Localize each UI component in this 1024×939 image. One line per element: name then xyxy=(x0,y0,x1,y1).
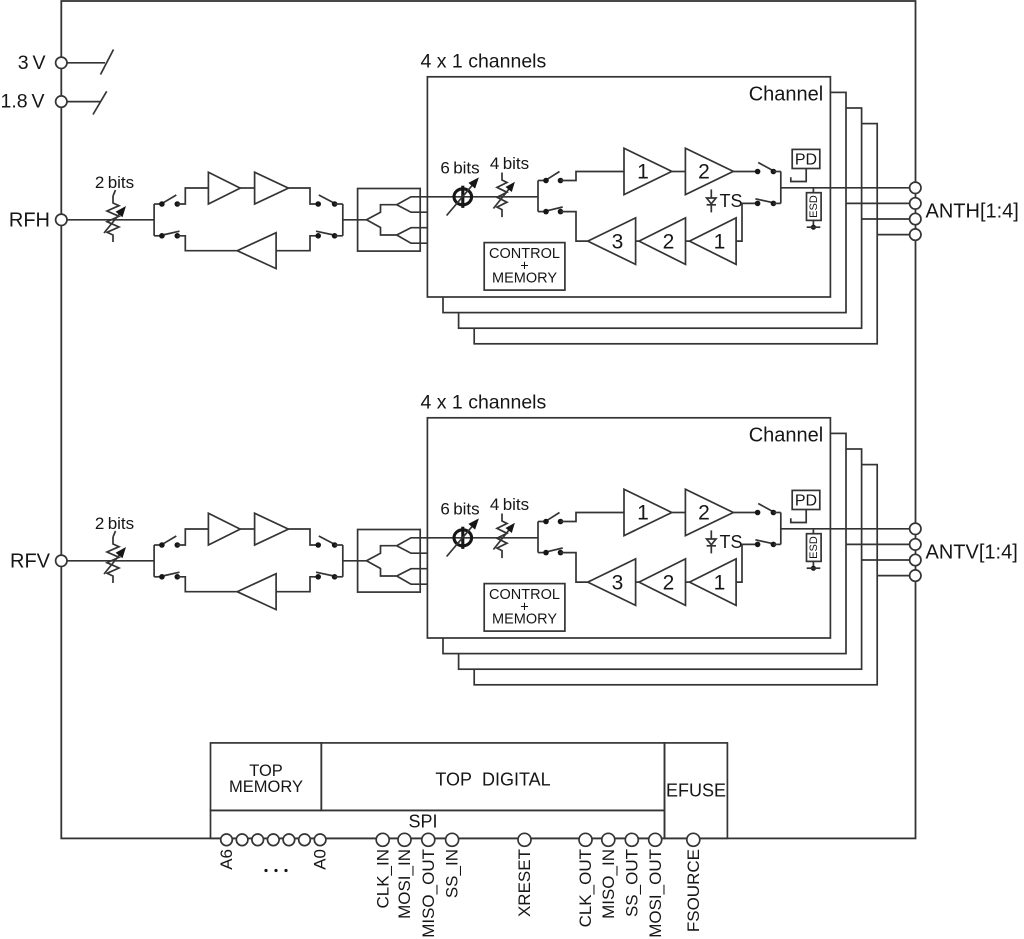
label CONTROL H xyxy=(489,246,560,262)
wire node to RX-out switch V xyxy=(154,576,162,578)
svg-text:PD: PD xyxy=(795,493,817,510)
svg-text:2: 2 xyxy=(698,161,710,184)
svg-text:2: 2 xyxy=(698,502,710,525)
switch RX-out V xyxy=(543,548,563,555)
label Channel (V) xyxy=(749,425,824,447)
wire LNA2-LNA1 H xyxy=(686,240,690,242)
label LNA3 '3' V xyxy=(612,572,624,595)
wire RX chain out V xyxy=(561,553,588,583)
label MEMORY xyxy=(229,778,303,796)
leader 2 bits (V) xyxy=(113,531,116,537)
node TR-in H xyxy=(537,181,539,212)
svg-text:1: 1 xyxy=(637,161,649,184)
pin terminal FSOURCE xyxy=(687,833,700,846)
pin terminal A0 xyxy=(314,834,326,846)
wire LNA in H xyxy=(736,203,758,241)
wire to driver amps V xyxy=(177,529,208,545)
switch bypass RX-in H xyxy=(315,231,337,238)
pin terminal CLK_IN xyxy=(376,833,389,846)
svg-text:Channel: Channel xyxy=(749,425,824,447)
svg-text:6 bits: 6 bits xyxy=(440,500,479,519)
label 4 x 1 channels (H) xyxy=(421,51,547,73)
label SPI xyxy=(408,812,437,832)
wire TX-out to node V xyxy=(335,544,343,546)
svg-text:2 bits: 2 bits xyxy=(95,514,134,533)
label TOP DIGITAL xyxy=(435,770,550,790)
label 6 bits (V) xyxy=(440,500,479,519)
wire RX in V xyxy=(276,577,318,592)
pin terminal MISO_IN xyxy=(602,833,615,846)
pin terminal A-bus xyxy=(268,834,280,846)
channel box 3 (H) xyxy=(459,108,862,328)
wire channel output V xyxy=(781,528,910,530)
svg-text:MEMORY: MEMORY xyxy=(492,271,557,287)
ESD box V xyxy=(807,534,822,562)
label TS H xyxy=(720,191,743,211)
label + V xyxy=(520,600,528,616)
svg-text:MEMORY: MEMORY xyxy=(229,778,303,796)
wire ant3 H xyxy=(862,218,910,220)
pin label A0 xyxy=(311,849,330,870)
channel box 2 (V) xyxy=(443,433,846,653)
wire to PA V xyxy=(561,513,625,522)
node antenna H xyxy=(780,172,782,204)
switch bypass TX-out H xyxy=(315,195,337,207)
terminal ANTH1 H xyxy=(910,182,921,193)
channel box 1 (H) xyxy=(427,77,830,297)
svg-text:ESD: ESD xyxy=(808,536,820,559)
svg-text:CLK_IN: CLK_IN xyxy=(373,849,392,909)
switch TX-out H xyxy=(755,163,776,175)
bus slash 3V xyxy=(101,50,114,75)
switch bypass TX-in V xyxy=(159,536,180,548)
attenuator 4-bit V xyxy=(497,514,507,559)
splitter box V xyxy=(358,530,421,593)
wire TX to antenna node H xyxy=(773,171,780,173)
pin label A6 xyxy=(217,849,236,870)
wire PA1-PA2 H xyxy=(672,171,686,173)
amplifier driver A V xyxy=(208,513,240,545)
label ESD H xyxy=(808,195,820,218)
pin label MISO_IN xyxy=(599,849,618,919)
wire ant2 H xyxy=(846,202,910,204)
svg-text:4 x 1 channels: 4 x 1 channels xyxy=(421,392,547,414)
ESD ground H xyxy=(807,220,821,229)
switch RX-in H xyxy=(755,199,776,206)
wire ant3 V xyxy=(862,559,910,561)
pin terminal MISO_OUT xyxy=(422,833,435,846)
label CONTROL V xyxy=(489,587,560,603)
svg-text:MISO_IN: MISO_IN xyxy=(599,849,618,919)
wire RX-in to node H bypass xyxy=(335,235,343,237)
svg-text:2 bits: 2 bits xyxy=(95,173,134,192)
label LNA1 '1' V xyxy=(714,572,726,595)
label MEMORY V xyxy=(492,612,557,628)
attenuator 2-bit V xyxy=(107,537,119,583)
wire to PA H xyxy=(561,172,625,181)
amplifier RX bypass H xyxy=(237,233,276,269)
wire node to TX switch H xyxy=(538,180,546,182)
label PA2 '2' H xyxy=(698,161,710,184)
wire to driver amps H xyxy=(177,188,208,204)
label 4 bits (H) xyxy=(490,154,529,173)
wire node to TX-in switch V xyxy=(154,544,162,546)
svg-text:4 x 1 channels: 4 x 1 channels xyxy=(421,51,547,73)
pin label FSOURCE xyxy=(684,849,703,932)
terminal ANTH3 H xyxy=(910,213,921,224)
svg-text:ESD: ESD xyxy=(808,195,820,218)
wire node to RX switch V xyxy=(538,552,546,554)
wire 3V xyxy=(67,62,105,64)
wire PA2 out V xyxy=(733,512,757,514)
wire driver A-B V xyxy=(240,528,254,530)
label LNA2 '2' V xyxy=(663,572,675,595)
wire RX return H xyxy=(177,236,237,251)
control memory box H xyxy=(484,243,565,291)
wire ant2 V xyxy=(846,543,910,545)
pin terminal SS_IN xyxy=(446,833,459,846)
attenuator arrow 2-bit V xyxy=(104,547,126,574)
channel box 2 (H) xyxy=(443,92,846,312)
amplifier driver B H xyxy=(255,172,289,204)
svg-text:FSOURCE: FSOURCE xyxy=(684,849,703,932)
pin label SS_OUT xyxy=(622,849,641,917)
control memory box V xyxy=(484,584,565,632)
svg-text:ANTV[1:4]: ANTV[1:4] xyxy=(926,542,1018,564)
PD box V xyxy=(792,490,820,509)
attenuator arrow 2-bit H xyxy=(104,206,126,233)
switch TX-in H xyxy=(543,172,563,184)
port label RFH xyxy=(9,210,50,232)
svg-text:3 V: 3 V xyxy=(18,52,46,74)
label 6 bits (H) xyxy=(440,159,479,178)
amplifier LNA1 H xyxy=(690,218,737,265)
svg-text:PD: PD xyxy=(795,152,817,169)
pin terminal MOSI_OUT xyxy=(649,833,662,846)
svg-text:3: 3 xyxy=(612,231,624,254)
label TS V xyxy=(720,532,743,552)
wire RX-in to node V bypass xyxy=(335,576,343,578)
svg-text:TS: TS xyxy=(720,191,743,211)
wire LNA3-LNA2 H xyxy=(636,240,639,242)
svg-text:1.8 V: 1.8 V xyxy=(0,91,44,113)
label TOP xyxy=(249,762,283,780)
pin label MOSI_OUT xyxy=(646,849,665,938)
amplifier LNA2 H xyxy=(639,218,686,265)
port label ANTH[1:4] xyxy=(926,201,1019,223)
amplifier LNA2 V xyxy=(639,559,686,606)
amplifier RX bypass V xyxy=(237,574,276,610)
wire ant4 H xyxy=(877,234,909,236)
wire RFV input xyxy=(67,560,154,562)
label 4 x 1 channels (V) xyxy=(421,392,547,414)
label LNA3 '3' H xyxy=(612,231,624,254)
wire node to RX-out switch H xyxy=(154,235,162,237)
attenuator 4-bit H xyxy=(497,173,507,218)
svg-text:2: 2 xyxy=(663,231,675,254)
amplifier PA2 V xyxy=(685,489,733,536)
ESD stub V xyxy=(812,529,814,534)
svg-text:TS: TS xyxy=(720,532,743,552)
PD hook H xyxy=(791,169,806,182)
wire LNA2-LNA1 V xyxy=(686,581,690,583)
diode TS V xyxy=(707,530,716,553)
svg-text:SS_IN: SS_IN xyxy=(443,849,462,898)
node bypass-out H xyxy=(342,204,344,236)
channel box 4 (V) xyxy=(474,465,877,685)
chip outer boundary xyxy=(61,1,915,838)
svg-text:1: 1 xyxy=(714,572,726,595)
svg-text:2: 2 xyxy=(663,572,675,595)
supply label 1.8 V xyxy=(0,91,44,113)
wire RX in H xyxy=(276,236,318,251)
label 4 bits (V) xyxy=(490,495,529,514)
switch TX-out V xyxy=(755,504,776,516)
wire LNA in V xyxy=(736,544,758,582)
svg-text:1: 1 xyxy=(714,231,726,254)
svg-text:MOSI_OUT: MOSI_OUT xyxy=(646,849,665,938)
phase shifter arrow V xyxy=(447,518,479,556)
label PD H xyxy=(795,152,817,169)
node bypass-in V xyxy=(153,545,155,577)
EFUSE box xyxy=(665,743,728,838)
terminal ANTV3 V xyxy=(910,554,921,565)
svg-text:4 bits: 4 bits xyxy=(490,154,529,173)
svg-text:ANTH[1:4]: ANTH[1:4] xyxy=(926,201,1019,223)
svg-text:A0: A0 xyxy=(311,849,330,870)
switch bypass TX-in H xyxy=(159,195,180,207)
wire node to TX switch V xyxy=(538,521,546,523)
label PD V xyxy=(795,493,817,510)
label PA2 '2' V xyxy=(698,502,710,525)
wire driver A-B H xyxy=(240,187,254,189)
amplifier driver A H xyxy=(208,172,240,204)
label PA1 '1' V xyxy=(637,502,649,525)
label MEMORY H xyxy=(492,271,557,287)
switch RX-out H xyxy=(543,207,563,214)
terminal ANTV2 V xyxy=(910,539,921,550)
svg-text:TOP DIGITAL: TOP DIGITAL xyxy=(435,770,550,790)
label LNA1 '1' H xyxy=(714,231,726,254)
ESD box H xyxy=(807,193,822,221)
pin terminal XRESET xyxy=(518,833,531,846)
wire to splitter H xyxy=(343,219,367,221)
pin terminal A-bus xyxy=(236,834,248,846)
SPI box xyxy=(211,810,665,838)
amplifier LNA3 H xyxy=(588,218,636,265)
pin terminal A6 xyxy=(221,834,233,846)
channel box 4 (H) xyxy=(474,124,877,344)
pin terminal MOSI_IN xyxy=(398,833,411,846)
port label RFV xyxy=(10,551,51,573)
TOP DIGITAL box xyxy=(321,743,664,811)
wire PA2 out H xyxy=(733,171,757,173)
switch bypass RX-in V xyxy=(315,572,337,579)
svg-text:6 bits: 6 bits xyxy=(440,159,479,178)
PD hook V xyxy=(791,510,806,523)
wire RFH input xyxy=(67,219,154,221)
node bypass-in H xyxy=(153,204,155,236)
svg-text:MEMORY: MEMORY xyxy=(492,612,557,628)
switch bypass TX-out V xyxy=(315,536,337,548)
leader 2 bits (H) xyxy=(113,190,116,196)
amplifier PA2 H xyxy=(685,148,733,195)
svg-text:3: 3 xyxy=(612,572,624,595)
pin label CLK_IN xyxy=(373,849,392,909)
label EFUSE xyxy=(666,781,726,801)
wire RX chain out H xyxy=(561,212,588,242)
wire RX-in to node V xyxy=(773,543,780,545)
svg-text:Channel: Channel xyxy=(749,84,824,106)
label PA1 '1' H xyxy=(637,161,649,184)
wire RX-in to node H xyxy=(773,202,780,204)
wire TX-out to node H xyxy=(335,203,343,205)
switch bypass RX-out V xyxy=(159,572,180,579)
label 2 bits (V) xyxy=(95,514,134,533)
pin terminal SS_OUT xyxy=(625,833,638,846)
port label ANTV[1:4] xyxy=(926,542,1018,564)
wire node to TX-in switch H xyxy=(154,203,162,205)
phase shifter arrow H xyxy=(447,177,479,215)
svg-text:4 bits: 4 bits xyxy=(490,495,529,514)
channel box 1 (V) xyxy=(427,418,830,638)
label + H xyxy=(520,259,528,275)
wire channel input V xyxy=(427,537,538,539)
label ESD V xyxy=(808,536,820,559)
splitter box H xyxy=(358,189,421,252)
PD box H xyxy=(792,149,820,168)
svg-text:EFUSE: EFUSE xyxy=(666,781,726,801)
node antenna V xyxy=(780,513,782,545)
amplifier PA1 V xyxy=(624,489,672,536)
splitter tree V xyxy=(367,538,428,584)
wire TX to antenna node V xyxy=(773,512,780,514)
ESD ground V xyxy=(807,561,821,570)
attenuator 2-bit H xyxy=(107,196,119,242)
pin label XRESET xyxy=(515,849,534,917)
amplifier LNA3 V xyxy=(588,559,636,606)
wire driver out H xyxy=(288,188,318,204)
terminal RFH xyxy=(56,214,67,225)
svg-text:RFV: RFV xyxy=(10,551,51,573)
svg-text:SPI: SPI xyxy=(408,812,437,832)
pin label SS_IN xyxy=(443,849,462,898)
splitter tree H xyxy=(367,197,428,243)
TOP MEMORY box xyxy=(211,743,322,811)
pin terminal CLK_OUT xyxy=(579,833,592,846)
phase shifter phi H xyxy=(454,186,472,208)
switch bypass RX-out H xyxy=(159,231,180,238)
terminal 3V xyxy=(56,57,67,68)
terminal RFV xyxy=(56,555,67,566)
svg-text:MISO_OUT: MISO_OUT xyxy=(419,849,438,938)
pin terminal A-bus xyxy=(252,834,264,846)
svg-text:RFH: RFH xyxy=(9,210,50,232)
node TR-in V xyxy=(537,522,539,553)
pin terminal A-bus xyxy=(299,834,311,846)
label 2 bits (H) xyxy=(95,173,134,192)
label LNA2 '2' H xyxy=(663,231,675,254)
node bypass-out V xyxy=(342,545,344,577)
terminal ANTV1 V xyxy=(910,523,921,534)
terminal ANTH4 H xyxy=(910,229,921,240)
pin terminal A-bus xyxy=(283,834,295,846)
svg-text:MOSI_IN: MOSI_IN xyxy=(395,849,414,919)
wire LNA3-LNA2 V xyxy=(636,581,639,583)
terminal ANTV4 V xyxy=(910,570,921,581)
pin label MOSI_IN xyxy=(395,849,414,919)
attenuator arrow 4-bit V xyxy=(493,523,515,550)
diode TS H xyxy=(707,189,716,212)
terminal ANTH2 H xyxy=(910,198,921,209)
phase shifter phi V xyxy=(454,527,472,549)
terminal 1.8V xyxy=(56,96,67,107)
pin label CLK_OUT xyxy=(576,849,595,927)
amplifier driver B V xyxy=(255,513,289,545)
wire to splitter V xyxy=(343,560,367,562)
wire channel output H xyxy=(781,187,910,189)
wire ant4 V xyxy=(877,575,909,577)
wire RX return V xyxy=(177,577,237,592)
wire 1.8V xyxy=(67,101,100,103)
label Channel (H) xyxy=(749,84,824,106)
pin label MISO_OUT xyxy=(419,849,438,938)
channel box 3 (V) xyxy=(459,449,862,669)
svg-text:CLK_OUT: CLK_OUT xyxy=(576,849,595,927)
wire channel input H xyxy=(427,196,538,198)
amplifier PA1 H xyxy=(624,148,672,195)
wire node to RX switch H xyxy=(538,211,546,213)
bus slash 1.8V xyxy=(93,91,107,114)
wire PA1-PA2 V xyxy=(672,512,686,514)
switch RX-in V xyxy=(755,540,776,547)
svg-text:XRESET: XRESET xyxy=(515,849,534,917)
svg-text:A6: A6 xyxy=(217,849,236,870)
switch TX-in V xyxy=(543,513,563,525)
attenuator arrow 4-bit H xyxy=(493,182,515,209)
supply label 3 V xyxy=(18,52,46,74)
svg-text:1: 1 xyxy=(637,502,649,525)
svg-text:SS_OUT: SS_OUT xyxy=(622,849,641,917)
wire driver out V xyxy=(288,529,318,545)
ellipsis A-bus xyxy=(264,869,287,872)
amplifier LNA1 V xyxy=(690,559,737,606)
ESD stub H xyxy=(812,188,814,193)
